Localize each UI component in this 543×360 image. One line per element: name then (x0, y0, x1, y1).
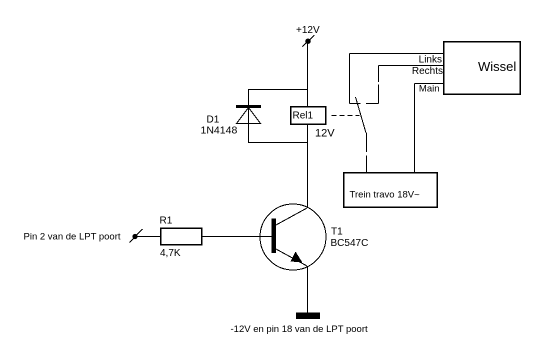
svg-text:Links: Links (419, 55, 442, 66)
svg-text:Wissel: Wissel (478, 59, 516, 74)
wire emitter to ground (307, 266, 309, 313)
wire switch right contact stub (366, 103, 379, 105)
svg-text:Rel1: Rel1 (293, 111, 314, 122)
wire switch right contact upper (378, 66, 380, 83)
svg-text:Trein travo 18V~: Trein travo 18V~ (350, 190, 421, 201)
transistor T1 base bar (272, 219, 277, 254)
wire pin2 to R1 (137, 236, 160, 238)
wire main vertical from +12V to collector (307, 43, 309, 208)
diode D1 triangle (237, 108, 261, 124)
svg-text:Rechts: Rechts (412, 66, 443, 77)
wire switch common lower (366, 156, 368, 173)
ground bar (296, 313, 320, 320)
diode D1 cathode bar (236, 105, 261, 108)
wire Main horizontal (415, 83, 444, 85)
svg-text:+12V: +12V (296, 25, 320, 36)
svg-text:Main: Main (419, 84, 440, 95)
node pin2 terminal symbol (130, 229, 143, 243)
wire switch common upper (366, 133, 368, 152)
resistor R1 box (161, 228, 202, 245)
svg-text:-12V en pin 18 van de LPT poor: -12V en pin 18 van de LPT poort (231, 324, 369, 335)
svg-text:12V: 12V (315, 128, 335, 140)
svg-text:Pin 2 van de LPT poort: Pin 2 van de LPT poort (24, 232, 121, 243)
transistor T1 emitter line (276, 249, 307, 266)
transistor T1 circle (260, 204, 326, 270)
wire R1 to base (202, 236, 272, 238)
relay Rel1 box (291, 107, 326, 125)
block Trein travo (344, 173, 438, 208)
svg-text:1N4148: 1N4148 (201, 125, 238, 137)
wire Rechts (379, 65, 444, 67)
wire Main vertical (414, 84, 416, 173)
svg-text:T1: T1 (331, 227, 343, 238)
svg-text:4,7K: 4,7K (160, 248, 181, 259)
block Wissel (444, 42, 521, 95)
wire Links (350, 53, 444, 55)
wire switch left contact (349, 54, 351, 104)
node +12V terminal symbol (302, 35, 314, 46)
transistor T1 emitter arrow (291, 253, 301, 262)
wire dashed relay to switch (332, 115, 360, 117)
wire switch right contact lower (378, 85, 380, 104)
switch blade (356, 97, 367, 133)
svg-text:R1: R1 (160, 216, 173, 227)
svg-text:BC547C: BC547C (331, 238, 369, 249)
wire diode top branch (249, 90, 308, 143)
wire switch left contact stub (350, 103, 361, 105)
transistor T1 collector line (276, 208, 307, 225)
